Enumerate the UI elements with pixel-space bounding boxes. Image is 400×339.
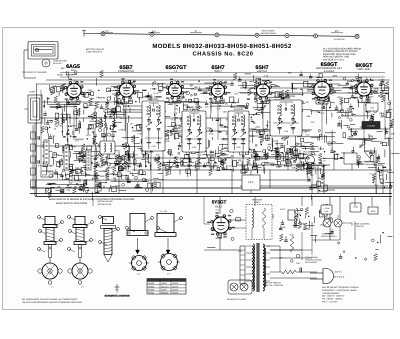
svg-text:22K: 22K bbox=[310, 109, 314, 112]
svg-text:100K: 100K bbox=[176, 131, 182, 134]
svg-text:100K: 100K bbox=[348, 80, 353, 83]
svg-text:INPUT: INPUT bbox=[214, 70, 222, 73]
svg-text:AM-FM: AM-FM bbox=[172, 282, 179, 285]
svg-text:3": 3" bbox=[195, 30, 197, 33]
svg-text:1¾": 1¾" bbox=[105, 30, 109, 33]
svg-text:OSC: OSC bbox=[42, 174, 47, 177]
svg-text:470K: 470K bbox=[300, 157, 305, 160]
svg-text:470K: 470K bbox=[165, 140, 170, 143]
svg-text:115V: 115V bbox=[238, 250, 243, 253]
svg-text:ALL VOLTAGES MEASURED FROM: ALL VOLTAGES MEASURED FROM bbox=[323, 48, 361, 51]
svg-text:TO POINTER: TO POINTER bbox=[334, 38, 346, 41]
svg-text:4⅝": 4⅝" bbox=[152, 30, 156, 33]
svg-text:5Y3GT: 5Y3GT bbox=[212, 200, 227, 205]
svg-text:56K: 56K bbox=[75, 128, 79, 131]
svg-text:400Ω: 400Ω bbox=[371, 210, 376, 213]
svg-text:5%: 5% bbox=[315, 111, 318, 114]
svg-text:3¾": 3¾" bbox=[335, 30, 339, 33]
svg-text:VIEWED FROM REAR: VIEWED FROM REAR bbox=[357, 163, 377, 166]
svg-text:AROUND DRUM: AROUND DRUM bbox=[260, 32, 276, 35]
svg-text:1 MEG: 1 MEG bbox=[78, 183, 85, 186]
svg-text:MODELS 8H032-8H033-8H050-8H051: MODELS 8H032-8H033-8H050-8H051-8H052 bbox=[152, 43, 292, 50]
svg-text:VALUES IN MICROFARADS UNLESS O: VALUES IN MICROFARADS UNLESS OTHERWISE S… bbox=[22, 301, 83, 304]
svg-text:TO EXTERNAL: TO EXTERNAL bbox=[305, 256, 318, 259]
svg-text:56K: 56K bbox=[194, 86, 198, 89]
svg-text:5%: 5% bbox=[75, 117, 78, 120]
svg-text:BOTTOM VIEW OF: BOTTOM VIEW OF bbox=[86, 48, 105, 51]
svg-text:SWITCH(OPER.): SWITCH(OPER.) bbox=[321, 235, 337, 238]
svg-text:56K: 56K bbox=[337, 111, 341, 114]
svg-text:1 MEG: 1 MEG bbox=[119, 128, 126, 131]
svg-text:NO.44 PILOT LAMPS: NO.44 PILOT LAMPS bbox=[227, 298, 247, 301]
svg-text:BAND SWITCH IS SHOWN IN EXTREM: BAND SWITCH IS SHOWN IN EXTREME COUNTERC… bbox=[49, 198, 135, 201]
svg-text:56K: 56K bbox=[61, 67, 65, 70]
svg-text:47K: 47K bbox=[127, 170, 131, 173]
svg-text:AM-FM: AM-FM bbox=[172, 288, 179, 291]
svg-text:TOP VIEW OF CHASSIS: TOP VIEW OF CHASSIS bbox=[22, 71, 47, 74]
svg-text:4½W: 4½W bbox=[353, 206, 358, 209]
svg-text:470K: 470K bbox=[291, 166, 296, 169]
svg-text:R-16: R-16 bbox=[154, 92, 160, 95]
svg-text:47K: 47K bbox=[305, 101, 309, 104]
svg-text:10K: 10K bbox=[206, 153, 210, 156]
svg-text:PER VOLT METER. LINE: PER VOLT METER. LINE bbox=[323, 56, 350, 59]
svg-text:8H033: 8H033 bbox=[149, 285, 155, 288]
svg-text:56K: 56K bbox=[115, 174, 119, 177]
svg-text:R.F. BAND SW.: R.F. BAND SW. bbox=[38, 165, 52, 168]
svg-text:56K: 56K bbox=[307, 115, 311, 118]
svg-text:IVORY: IVORY bbox=[161, 288, 168, 291]
svg-text:1 MEG: 1 MEG bbox=[318, 148, 325, 151]
svg-text:IVORY: IVORY bbox=[161, 282, 168, 285]
svg-text:SCHEMATIC DIAGRAM: SCHEMATIC DIAGRAM bbox=[104, 295, 129, 298]
svg-text:AM-FM: AM-FM bbox=[172, 292, 179, 295]
svg-text:AVC: AVC bbox=[91, 117, 96, 120]
svg-text:1 MEG: 1 MEG bbox=[103, 170, 110, 173]
svg-text:10K: 10K bbox=[238, 159, 242, 162]
svg-text:60 CYCLE: 60 CYCLE bbox=[334, 276, 345, 279]
svg-text:FM = 88 MC - 108 MC: FM = 88 MC - 108 MC bbox=[322, 298, 343, 301]
svg-text:CONTROL: CONTROL bbox=[303, 153, 314, 156]
svg-text:100K: 100K bbox=[88, 123, 93, 126]
svg-text:470K: 470K bbox=[192, 146, 197, 149]
svg-text:1⅛" DIA: 1⅛" DIA bbox=[160, 210, 168, 213]
svg-text:COIL: COIL bbox=[324, 210, 328, 213]
svg-text:AVC: AVC bbox=[134, 154, 139, 157]
svg-text:470K: 470K bbox=[236, 146, 241, 149]
svg-text:R-16: R-16 bbox=[209, 133, 215, 136]
svg-text:TUBE SOCKETS: TUBE SOCKETS bbox=[86, 51, 103, 54]
svg-text:I.F.: I.F. bbox=[174, 70, 178, 73]
svg-text:SWITCH: SWITCH bbox=[356, 225, 364, 228]
svg-text:CONVERTER: CONVERTER bbox=[118, 70, 134, 73]
svg-text:FREQUENCY = FREQUENCY BAND: FREQUENCY = FREQUENCY BAND bbox=[322, 289, 357, 292]
svg-text:470K: 470K bbox=[71, 146, 76, 149]
svg-text:1 MEG: 1 MEG bbox=[150, 87, 157, 90]
svg-text:BROWN: BROWN bbox=[161, 292, 169, 295]
svg-text:BAND SWITCH POSITIONS: BAND SWITCH POSITIONS bbox=[56, 202, 87, 205]
svg-text:100K: 100K bbox=[197, 162, 203, 165]
svg-text:OF FLAG: OF FLAG bbox=[53, 62, 62, 65]
svg-text:ANY 88-108 MC FREQUENCY MODUL.: ANY 88-108 MC FREQUENCY MODUL. bbox=[322, 286, 360, 289]
svg-text:470K: 470K bbox=[241, 165, 246, 168]
svg-text:TUNING RANGES: TUNING RANGES bbox=[322, 292, 340, 295]
svg-text:8H050: 8H050 bbox=[149, 288, 155, 291]
svg-text:100K: 100K bbox=[181, 165, 186, 168]
svg-text:470K: 470K bbox=[284, 130, 289, 133]
svg-text:( DETAIL FM 88: ( DETAIL FM 88 bbox=[97, 203, 112, 206]
svg-text:WALNUT: WALNUT bbox=[161, 285, 170, 288]
svg-text:22K: 22K bbox=[370, 96, 374, 99]
svg-text:COMMON GROUND TO POINTS: COMMON GROUND TO POINTS bbox=[323, 50, 358, 53]
svg-text:( DETAIL FM 108: ( DETAIL FM 108 bbox=[97, 200, 113, 203]
svg-text:R-16: R-16 bbox=[321, 159, 327, 162]
svg-text:RECT.: RECT. bbox=[215, 206, 223, 209]
svg-text:1 MEG: 1 MEG bbox=[106, 166, 113, 169]
svg-text:47K: 47K bbox=[205, 106, 209, 109]
svg-text:56K: 56K bbox=[288, 72, 292, 75]
svg-text:ALL RESISTANCE VALUES IN OHMS.: ALL RESISTANCE VALUES IN OHMS. ALL CAPAC… bbox=[22, 298, 78, 301]
svg-text:ALTO BASS: ALTO BASS bbox=[322, 233, 334, 236]
svg-text:CHASSIS No. 8C20: CHASSIS No. 8C20 bbox=[193, 51, 254, 58]
svg-text:1500: 1500 bbox=[348, 136, 354, 139]
svg-text:FM IF = 10.7 MC: FM IF = 10.7 MC bbox=[322, 301, 338, 304]
svg-text:470K: 470K bbox=[151, 145, 156, 148]
svg-text:VOLTAGE 117 V.A.C.: VOLTAGE 117 V.A.C. bbox=[323, 58, 345, 61]
svg-text:& AUDIO: & AUDIO bbox=[324, 70, 335, 73]
svg-text:1 MEG: 1 MEG bbox=[213, 100, 220, 103]
svg-text:GANG: GANG bbox=[57, 74, 63, 77]
svg-text:L-DRM: L-DRM bbox=[324, 207, 330, 210]
svg-text:LIMITER: LIMITER bbox=[257, 70, 267, 73]
svg-text:ON CHASSIS: ON CHASSIS bbox=[305, 261, 317, 264]
svg-text:VOLUME: VOLUME bbox=[303, 151, 313, 154]
svg-text:10K: 10K bbox=[113, 177, 117, 180]
svg-text:22K: 22K bbox=[55, 125, 59, 128]
svg-text:INDICATED WITH 20,000 OHM: INDICATED WITH 20,000 OHM bbox=[323, 53, 355, 56]
svg-text:AVC: AVC bbox=[322, 157, 327, 160]
svg-text:TERMINAL BOARD: TERMINAL BOARD bbox=[305, 259, 322, 262]
svg-text:(115 V.): (115 V.) bbox=[334, 271, 342, 274]
svg-text:AM-FM: AM-FM bbox=[172, 285, 179, 288]
svg-text:R.F.: R.F. bbox=[71, 69, 76, 72]
svg-text:ON VOL. CONTROL: ON VOL. CONTROL bbox=[265, 284, 284, 287]
svg-text:R-16: R-16 bbox=[66, 116, 72, 119]
svg-text:5%: 5% bbox=[293, 146, 296, 149]
svg-text:470K: 470K bbox=[281, 226, 286, 229]
svg-text:SPEAKER: SPEAKER bbox=[252, 199, 263, 202]
svg-text:PWR. AMP.: PWR. AMP. bbox=[357, 68, 371, 71]
svg-text:8H032: 8H032 bbox=[149, 282, 155, 285]
svg-text:5%: 5% bbox=[225, 102, 228, 105]
svg-text:LOOP: LOOP bbox=[29, 91, 36, 94]
svg-text:5%: 5% bbox=[224, 146, 227, 149]
svg-text:A-31248: A-31248 bbox=[367, 125, 375, 128]
svg-text:100K: 100K bbox=[348, 110, 354, 113]
svg-text:8H051: 8H051 bbox=[149, 292, 155, 295]
svg-text:AM = 540 KC - 1600 KC: AM = 540 KC - 1600 KC bbox=[322, 295, 345, 298]
svg-text:22K: 22K bbox=[336, 153, 340, 156]
svg-text:10K: 10K bbox=[221, 138, 225, 141]
svg-text:47K: 47K bbox=[300, 161, 304, 164]
svg-text:A.F.C.: A.F.C. bbox=[248, 181, 255, 184]
